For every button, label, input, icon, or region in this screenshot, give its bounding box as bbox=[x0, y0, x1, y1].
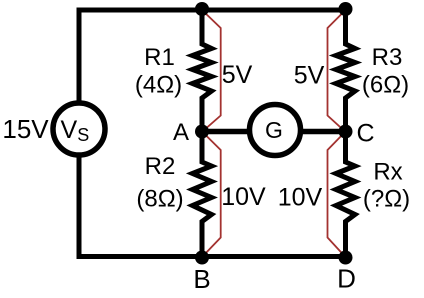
wire middle A to C bbox=[202, 129, 346, 135]
svg-text:A: A bbox=[173, 119, 189, 146]
node D junction bbox=[339, 251, 353, 265]
resistor Rx zigzag branch bbox=[336, 132, 355, 257]
wire bottom rail bbox=[79, 254, 346, 259]
svg-text:5V: 5V bbox=[222, 61, 253, 89]
voltage bracket 5V (R3) bbox=[328, 10, 346, 131]
svg-text:C: C bbox=[356, 120, 374, 148]
resistor R3 zigzag branch bbox=[336, 10, 355, 132]
wire top rail bbox=[79, 8, 346, 13]
svg-text:(6Ω): (6Ω) bbox=[362, 72, 409, 99]
node top-left junction bbox=[195, 2, 209, 16]
voltage source VS circle bbox=[53, 103, 105, 155]
svg-text:G: G bbox=[265, 117, 283, 143]
svg-text:15V: 15V bbox=[2, 114, 49, 144]
svg-text:5V: 5V bbox=[294, 62, 325, 90]
wire left rail bbox=[77, 10, 82, 257]
node top-right junction bbox=[339, 2, 353, 16]
svg-text:10V: 10V bbox=[278, 184, 323, 212]
svg-text:10V: 10V bbox=[221, 183, 266, 211]
svg-text:D: D bbox=[337, 264, 356, 294]
resistor R1 zigzag branch bbox=[193, 10, 212, 132]
galvanometer G circle bbox=[250, 105, 301, 156]
voltage bracket 10V (Rx) bbox=[328, 132, 346, 257]
node A junction bbox=[195, 125, 209, 139]
svg-text:Rx: Rx bbox=[373, 159, 402, 186]
voltage bracket 5V (R1) bbox=[202, 10, 221, 131]
svg-text:(?Ω): (?Ω) bbox=[363, 186, 410, 213]
svg-text:R3: R3 bbox=[372, 44, 403, 71]
voltage bracket 10V (R2) bbox=[202, 132, 221, 257]
node C junction bbox=[339, 125, 353, 139]
svg-text:R2: R2 bbox=[145, 153, 176, 180]
resistor R2 zigzag branch bbox=[193, 132, 212, 257]
node B junction bbox=[195, 251, 209, 265]
svg-text:(8Ω): (8Ω) bbox=[136, 186, 183, 213]
svg-text:R1: R1 bbox=[144, 44, 175, 71]
svg-text:(4Ω): (4Ω) bbox=[135, 72, 182, 99]
svg-text:B: B bbox=[193, 264, 210, 294]
